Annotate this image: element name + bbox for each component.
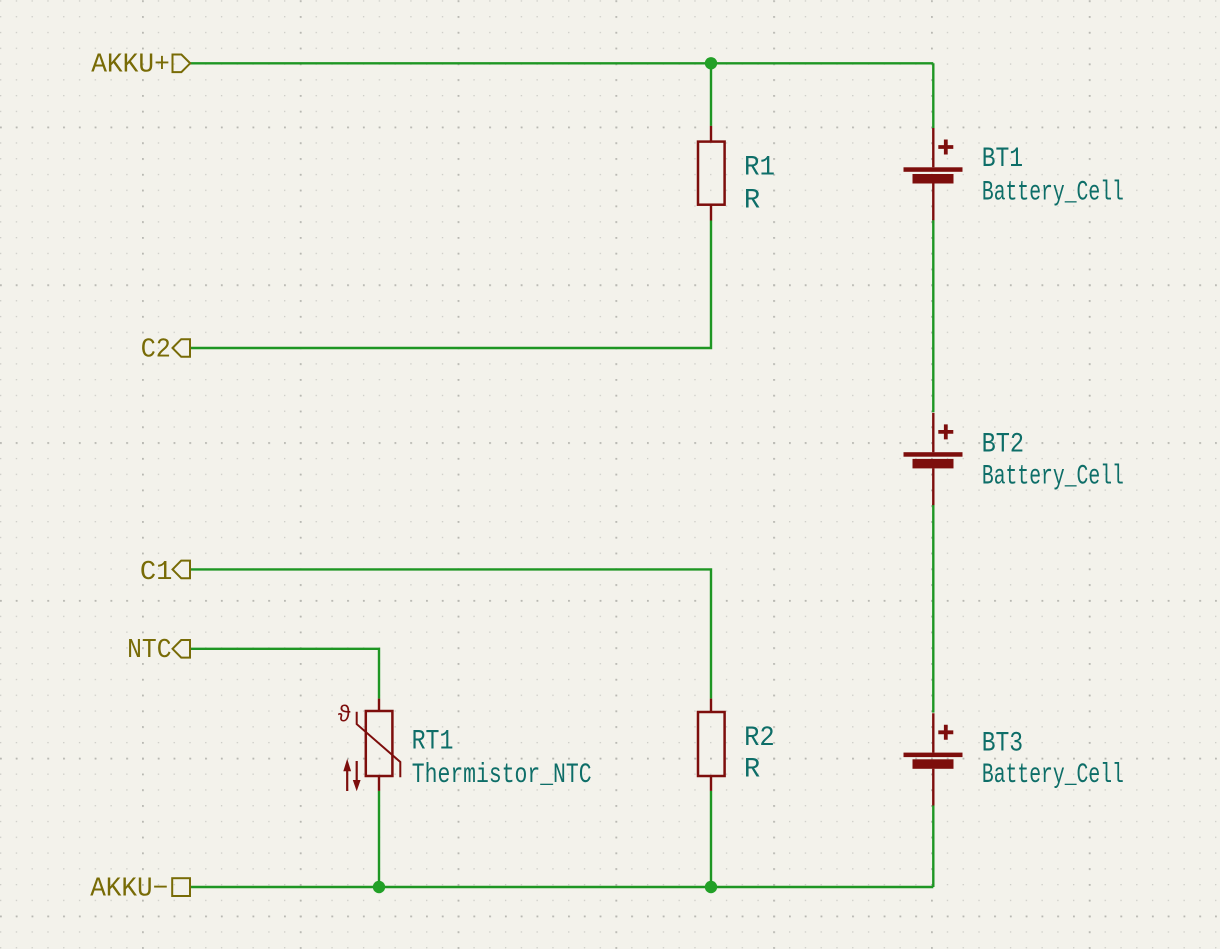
svg-text:BT2: BT2: [982, 430, 1025, 461]
svg-text:R1: R1: [744, 153, 775, 184]
wire C1 to R2: [190, 569, 711, 698]
svg-text:BT3: BT3: [982, 729, 1023, 760]
svg-text:R: R: [744, 185, 760, 216]
junction at R1/AKKU+: [705, 57, 717, 69]
wire BT3 to bottom net: [932, 806, 934, 888]
hierarchical label C1: [173, 561, 191, 579]
svg-text:Battery_Cell: Battery_Cell: [982, 177, 1124, 208]
battery BT1: [904, 128, 963, 220]
thermistor RT1: [357, 699, 401, 791]
hierarchical label C2: [173, 339, 191, 357]
hierarchical label AKKU+: [173, 55, 191, 73]
wire R1 top drop: [710, 63, 712, 126]
wire NTC to RT1: [190, 649, 379, 699]
svg-text:AKKU+: AKKU+: [91, 50, 170, 80]
svg-text:NTC: NTC: [127, 635, 171, 665]
RT1 arrows: [343, 759, 360, 792]
hierarchical label AKKU-: [172, 878, 190, 896]
battery BT2: [904, 413, 963, 505]
svg-text:R2: R2: [744, 723, 775, 754]
junction at RT1/bottom net: [373, 881, 385, 893]
svg-text:Battery_Cell: Battery_Cell: [982, 760, 1124, 791]
junction at R2/bottom net: [705, 881, 717, 893]
wire AKKU+ top net: [190, 62, 933, 64]
svg-text:C1: C1: [140, 557, 173, 587]
svg-text:BT1: BT1: [982, 144, 1023, 175]
wire AKKU- bottom net: [190, 886, 933, 888]
svg-text:R: R: [744, 755, 760, 786]
svg-text:RT1: RT1: [412, 726, 454, 757]
svg-text:C2: C2: [141, 335, 171, 365]
svg-text:AKKU−: AKKU−: [90, 874, 168, 904]
wire R1 bottom to C2: [190, 221, 711, 349]
svg-text:ϑ: ϑ: [338, 703, 352, 729]
wire BT1 to BT2: [932, 219, 934, 412]
resistor R2: [698, 699, 725, 791]
svg-text:Thermistor_NTC: Thermistor_NTC: [412, 760, 592, 791]
wire BT1 top drop: [932, 63, 934, 128]
svg-text:Battery_Cell: Battery_Cell: [982, 462, 1124, 493]
wire BT2 to BT3: [932, 504, 934, 713]
resistor R1: [698, 126, 725, 221]
battery BT3: [904, 713, 963, 805]
hierarchical label NTC: [173, 640, 191, 658]
wire R2 bottom: [710, 791, 712, 887]
wire RT1 bottom: [378, 791, 380, 887]
